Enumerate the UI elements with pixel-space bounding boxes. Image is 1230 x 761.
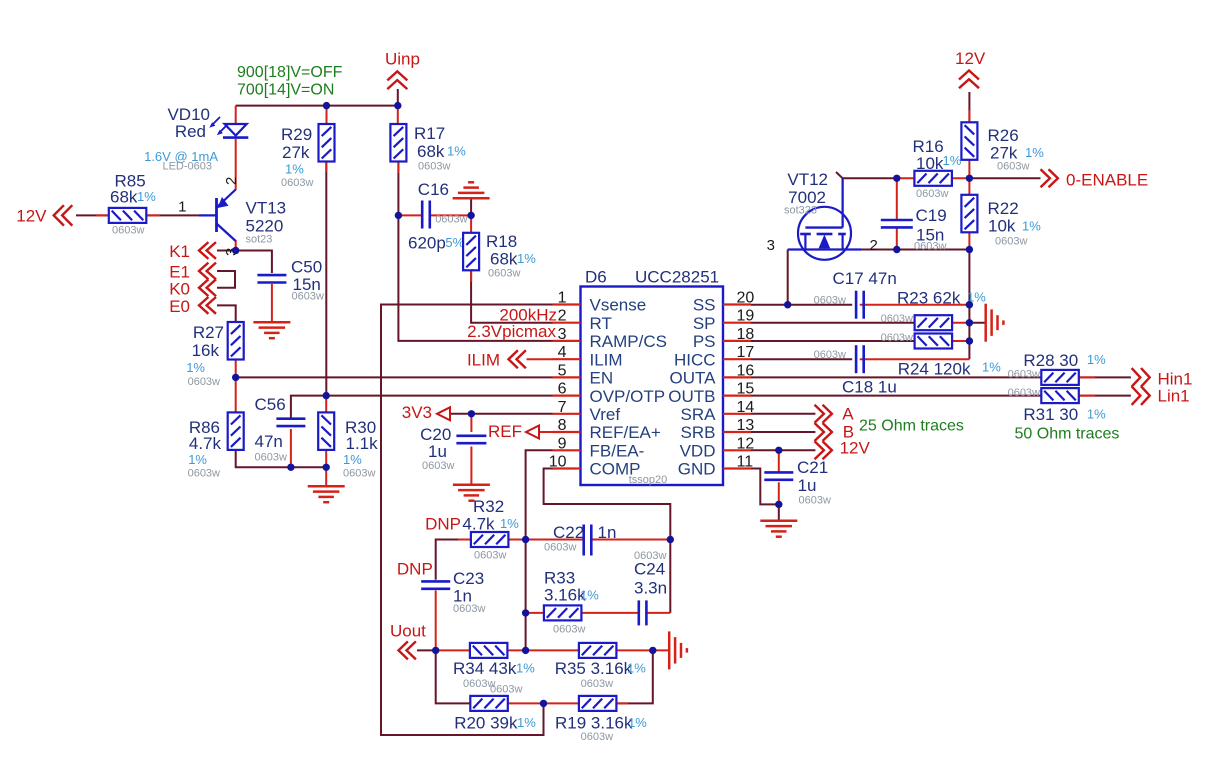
svg-text:sot23: sot23 (246, 234, 273, 246)
svg-text:620p: 620p (408, 234, 446, 253)
svg-text:A: A (842, 405, 854, 424)
svg-text:VDD: VDD (680, 442, 716, 461)
junction SS VT12 drain (784, 301, 791, 308)
junction enable node (966, 175, 973, 182)
wire R18 bottom to RT pin 2 (471, 269, 552, 322)
junction Vref C20 (468, 410, 475, 417)
svg-text:1%: 1% (447, 144, 466, 159)
svg-text:1%: 1% (500, 516, 519, 531)
svg-text:1%: 1% (188, 452, 207, 467)
svg-text:12V: 12V (840, 439, 871, 458)
svg-text:0603w: 0603w (1008, 369, 1040, 381)
svg-text:R17: R17 (414, 124, 445, 143)
svg-text:10: 10 (549, 454, 567, 471)
wire COMP node down to C24 (669, 540, 671, 613)
svg-text:0603w: 0603w (997, 161, 1029, 173)
svg-text:4.7k: 4.7k (189, 434, 222, 453)
junction OVP node R30 (323, 392, 330, 399)
wire R20 right stub (508, 702, 544, 704)
svg-text:1u: 1u (428, 442, 447, 461)
wire COMP pin 10 routing (544, 469, 671, 540)
capacitor C17 (814, 291, 864, 319)
wire HICC pin 17 to C18 (751, 358, 852, 360)
svg-text:R28 30: R28 30 (1023, 351, 1078, 370)
svg-text:1%: 1% (628, 715, 647, 730)
wire R30 bottom stub (325, 450, 327, 467)
svg-text:1%: 1% (580, 588, 599, 603)
svg-text:sot323: sot323 (784, 205, 817, 217)
capacitor C23 DNP (397, 560, 486, 616)
svg-text:R34 43k: R34 43k (453, 659, 517, 678)
wire R22 bottom stub (968, 232, 970, 249)
wire C23 bottom to Uout node (435, 591, 437, 651)
wire port E0 to R27 (217, 305, 236, 322)
svg-text:0603w: 0603w (581, 731, 613, 743)
svg-text:11: 11 (737, 454, 754, 471)
svg-text:C50: C50 (291, 258, 322, 277)
svg-text:R29: R29 (281, 125, 312, 144)
wire VT13 emitter to node K1 (235, 240, 237, 251)
junction R23 ground bus (966, 319, 973, 326)
wire REF pin 8 stub (539, 431, 553, 433)
svg-text:3.3n: 3.3n (634, 579, 667, 598)
wire VT13 base lead (199, 214, 217, 216)
svg-text:ILIM: ILIM (467, 351, 500, 370)
svg-text:1%: 1% (1025, 145, 1044, 160)
wire Vsense pin 1 to R19/R20 node (381, 305, 553, 736)
svg-text:R20 39k: R20 39k (454, 714, 518, 733)
svg-text:13: 13 (737, 417, 755, 434)
wire port K1 (217, 250, 236, 252)
comment 700V ON (237, 82, 334, 99)
junction EN node (232, 374, 239, 381)
wire OUTB pin 15 to R31 (751, 395, 1041, 397)
wire Vref pin 7 line (450, 413, 553, 415)
wire ground stem under R30 (325, 467, 327, 486)
junction R22 bottom (966, 246, 973, 253)
wire SRB pin 13 to port B (751, 431, 815, 433)
svg-text:18: 18 (737, 326, 755, 343)
svg-text:0603w: 0603w (916, 188, 948, 200)
svg-text:REF/EA+: REF/EA+ (590, 423, 661, 442)
junction GND C21 (775, 501, 782, 508)
wire VT12 gate to R16 (836, 172, 897, 227)
svg-text:50 Ohm traces: 50 Ohm traces (1015, 426, 1120, 443)
svg-text:0603w: 0603w (343, 468, 375, 480)
svg-text:4.7k: 4.7k (462, 515, 495, 534)
resistor R29 (281, 124, 335, 189)
svg-text:0603w: 0603w (914, 241, 946, 253)
resistor R35 (555, 643, 647, 690)
wire R28 to Hin1 (1078, 376, 1131, 378)
resistor R27 (186, 322, 243, 388)
svg-text:0603w: 0603w (814, 295, 846, 307)
svg-text:OVP/OTP: OVP/OTP (590, 387, 666, 406)
wire C56 bottom stub (290, 429, 292, 467)
svg-text:R32: R32 (473, 497, 504, 516)
ground under C21 (760, 521, 797, 537)
svg-text:2: 2 (223, 177, 240, 185)
svg-text:2.3Vpicmax: 2.3Vpicmax (467, 322, 556, 341)
svg-text:0603w: 0603w (422, 460, 454, 472)
svg-text:R35 3.16k: R35 3.16k (555, 659, 633, 678)
label pin 1 VT13 base (178, 199, 186, 216)
port 12V left (16, 205, 72, 225)
svg-text:DNP: DNP (425, 515, 461, 534)
svg-text:SP: SP (693, 314, 716, 333)
comment 50 Ohm traces (1015, 426, 1120, 443)
wire R19 right up to R35 node (615, 650, 653, 703)
resistor R30 (318, 412, 378, 479)
port E1 (169, 263, 216, 282)
svg-text:0603w: 0603w (453, 603, 485, 615)
port Lin1 (1132, 386, 1190, 405)
capacitor C20 (420, 425, 486, 472)
wire C16 left stub (398, 214, 421, 216)
svg-text:Uout: Uout (390, 622, 426, 641)
wire R16 right stub (952, 177, 970, 179)
svg-text:R22: R22 (988, 199, 1019, 218)
svg-text:PS: PS (693, 332, 716, 351)
svg-text:ILIM: ILIM (590, 350, 623, 369)
wire R33 left stub (526, 612, 544, 614)
svg-text:1%: 1% (982, 360, 1001, 375)
capacitor C22 (544, 523, 616, 556)
svg-text:C19: C19 (916, 206, 947, 225)
junction C16 left node (395, 212, 402, 219)
svg-text:VT13: VT13 (246, 199, 287, 218)
svg-text:1: 1 (558, 290, 567, 307)
port Uout (390, 622, 426, 660)
wire Uout port line (417, 649, 436, 651)
svg-text:12: 12 (737, 435, 755, 452)
wire R17 bottom to C16 node (397, 161, 399, 216)
svg-text:SRA: SRA (681, 405, 717, 424)
svg-text:12V: 12V (16, 207, 47, 226)
svg-text:0603w: 0603w (435, 214, 467, 226)
capacitor C16 (408, 180, 468, 253)
capacitor C21 (764, 458, 831, 507)
LED VD10 (144, 105, 248, 173)
wire C19 top stub (896, 178, 898, 219)
label R24 value (898, 360, 1002, 379)
svg-text:0603w: 0603w (188, 376, 220, 388)
junction C17 ground bus (966, 301, 973, 308)
capacitor C24 (634, 550, 667, 625)
resistor R24 (881, 332, 953, 349)
svg-text:20: 20 (737, 290, 755, 307)
wire ground stem under C21 (778, 504, 780, 520)
junction R24 ground bus (966, 337, 973, 344)
wire C19 bottom stub (896, 229, 898, 250)
wire C20 top stub (470, 414, 472, 432)
wire R86 top stub (235, 377, 237, 412)
wire OUTA pin 16 to R28 (751, 376, 1041, 378)
wire R19 left stub (544, 702, 579, 704)
svg-text:0603w: 0603w (799, 495, 831, 507)
resistor R33 (544, 569, 599, 636)
svg-text:0603w: 0603w (544, 542, 576, 554)
junction C19 bottom (893, 246, 900, 253)
resistor R86 (188, 412, 244, 479)
wire R29 bottom to OVP junction (325, 161, 327, 395)
junction Uinp rail R17 (394, 102, 401, 109)
transistor VT13 (217, 177, 287, 256)
svg-text:0603w: 0603w (581, 678, 613, 690)
svg-text:1%: 1% (517, 251, 536, 266)
wire R22 top stub (968, 178, 970, 195)
port E0 (169, 297, 216, 316)
svg-text:5: 5 (558, 362, 567, 379)
wire Uout node down to R20 (436, 650, 471, 703)
svg-text:1%: 1% (516, 661, 535, 676)
svg-text:0603w: 0603w (418, 161, 450, 173)
svg-text:3: 3 (767, 237, 775, 254)
wire C20 bottom to ground (470, 447, 472, 485)
svg-text:1%: 1% (1087, 407, 1106, 422)
port K1 (169, 242, 216, 261)
junction C16 right node (467, 212, 474, 219)
wire C17 right to ground bus (860, 304, 970, 306)
resistor R17 (390, 124, 466, 173)
svg-text:2: 2 (558, 308, 567, 325)
label 2.3Vpicmax (467, 322, 556, 341)
svg-text:EN: EN (590, 369, 614, 388)
svg-text:R27: R27 (193, 323, 224, 342)
port K0 (169, 279, 216, 298)
svg-text:C22: C22 (553, 523, 584, 542)
wire PS pin 18 to R24 (751, 340, 915, 342)
svg-text:SRB: SRB (681, 423, 716, 442)
svg-text:700[14]V=ON: 700[14]V=ON (237, 82, 334, 99)
svg-text:FB/EA-: FB/EA- (590, 442, 645, 461)
wire R18 top stub (470, 215, 472, 233)
wire R26 bottom stub (968, 161, 970, 179)
port 0-ENABLE (1041, 169, 1149, 189)
port Hin1 (1132, 368, 1193, 388)
wire VT12 source rail (862, 249, 970, 251)
svg-text:R19 3.16k: R19 3.16k (555, 714, 633, 733)
svg-text:K0: K0 (169, 280, 190, 299)
svg-text:0603w: 0603w (255, 452, 287, 464)
wire ground right stub (969, 322, 985, 324)
wire VT12 drain down to SS (787, 250, 789, 305)
port 12V right (815, 439, 871, 460)
junction FB divider mid (522, 647, 529, 654)
svg-text:0603w: 0603w (488, 268, 520, 280)
wire R32 right stub (508, 539, 525, 541)
wire inverted ground stem (470, 198, 472, 215)
svg-text:0-ENABLE: 0-ENABLE (1066, 171, 1148, 190)
port ILIM (467, 350, 553, 369)
wire SP pin 19 to R23 (751, 322, 915, 324)
capacitor C19 (881, 206, 947, 253)
junction R35 ground node (649, 647, 656, 654)
label C17 value (833, 269, 897, 288)
svg-text:0603w: 0603w (634, 550, 666, 562)
junction Uout node (432, 647, 439, 654)
wire EN pin 5 line (236, 376, 553, 378)
svg-text:900[18]V=OFF: 900[18]V=OFF (237, 64, 343, 81)
svg-text:C23: C23 (453, 569, 484, 588)
svg-text:1%: 1% (186, 360, 205, 375)
label R23 value (897, 289, 986, 308)
svg-text:27k: 27k (282, 143, 310, 162)
wire Uout node to R34 (436, 649, 470, 651)
wire node K1 to C50 (236, 251, 272, 274)
svg-text:25 Ohm traces: 25 Ohm traces (859, 418, 964, 435)
wire VDD pin 12 to port 12V (751, 449, 815, 451)
svg-text:0603w: 0603w (1008, 387, 1040, 399)
resistor R85 (109, 172, 156, 237)
wire LED to VT13 collector (235, 139, 237, 190)
svg-text:UCC28251: UCC28251 (635, 268, 719, 287)
svg-text:10k: 10k (916, 154, 944, 173)
svg-text:REF: REF (488, 422, 522, 441)
capacitor C18 (814, 345, 864, 373)
wire C50 to ground (271, 284, 273, 322)
svg-text:3V3: 3V3 (402, 403, 432, 422)
svg-text:0603w: 0603w (553, 624, 585, 636)
port REF (488, 422, 539, 441)
wire SRA pin 14 to port A (751, 413, 815, 415)
svg-text:3: 3 (558, 326, 567, 343)
svg-text:8: 8 (558, 417, 567, 434)
svg-text:1%: 1% (1087, 352, 1106, 367)
svg-text:1n: 1n (598, 523, 617, 542)
label 200kHz (499, 306, 557, 325)
svg-text:16: 16 (737, 362, 755, 379)
wire C22 right stub (592, 539, 671, 541)
port B (815, 423, 855, 442)
ground under C50 (253, 322, 290, 338)
junction FB R33 (522, 609, 529, 616)
svg-text:D6: D6 (585, 268, 607, 287)
svg-text:1%: 1% (343, 452, 362, 467)
label C18 value (842, 378, 897, 397)
svg-text:C16: C16 (418, 180, 449, 199)
junction gate node R16 (893, 175, 900, 182)
wire SS pin 20 to C17 (751, 304, 852, 306)
svg-text:K1: K1 (169, 242, 190, 261)
svg-text:0603w: 0603w (814, 349, 846, 361)
svg-text:C18 1u: C18 1u (842, 378, 897, 397)
wire C22 left stub (526, 539, 584, 541)
svg-text:C21: C21 (797, 458, 828, 477)
svg-text:VT12: VT12 (787, 170, 828, 189)
svg-text:1%: 1% (517, 715, 536, 730)
resistor R26 (961, 122, 1044, 172)
svg-text:1%: 1% (137, 189, 156, 204)
resistor R22 (961, 195, 1041, 248)
wire 12V top to R26 (968, 92, 970, 122)
capacitor C50 (257, 258, 324, 303)
svg-text:68k: 68k (490, 250, 518, 269)
wire top rail Uinp net (236, 89, 398, 124)
svg-text:6: 6 (558, 381, 567, 398)
svg-text:RT: RT (590, 314, 612, 333)
wire C16 right stub (430, 214, 471, 216)
wire GND pin 11 routing (751, 469, 779, 505)
svg-text:R31 30: R31 30 (1023, 405, 1078, 424)
wire R30 top stub (325, 396, 327, 414)
svg-text:C56: C56 (255, 395, 286, 414)
svg-text:1%: 1% (1022, 219, 1041, 234)
svg-text:14: 14 (737, 399, 755, 416)
comment 25 Ohm traces (859, 418, 964, 435)
transistor VT12 (767, 170, 878, 260)
svg-text:0603w: 0603w (995, 236, 1027, 248)
svg-text:7: 7 (558, 399, 567, 416)
rotated ground right of R23 (986, 304, 1004, 342)
port A (815, 405, 855, 424)
wire R23 right stub (952, 322, 970, 324)
resistor R16 (913, 137, 962, 200)
svg-text:1%: 1% (285, 162, 304, 177)
resistor R34 (453, 643, 535, 690)
resistor R20 (454, 684, 536, 733)
svg-text:12V: 12V (955, 49, 986, 68)
svg-text:GND: GND (678, 460, 716, 479)
svg-text:HICC: HICC (674, 350, 716, 369)
comment 900V OFF (237, 64, 343, 81)
svg-text:OUTA: OUTA (670, 369, 717, 388)
svg-text:1: 1 (178, 199, 186, 216)
junction R30 ground rail (323, 464, 330, 471)
svg-text:1%: 1% (943, 153, 962, 168)
junction VDD C21 (775, 447, 782, 454)
wire ports E1-K0 bracket (217, 271, 235, 288)
wire OVP pin 6 line (291, 396, 553, 418)
svg-text:10k: 10k (988, 217, 1016, 236)
port 12V top (955, 49, 986, 88)
svg-text:0603w: 0603w (881, 332, 913, 344)
wire 12V to R85 to VT13 base (76, 214, 199, 216)
svg-text:5%: 5% (445, 235, 464, 250)
wire R16 left stub (897, 177, 915, 179)
svg-text:SS: SS (693, 296, 716, 315)
svg-text:0603w: 0603w (188, 468, 220, 480)
wire FB pin 9 to feedback node (526, 450, 553, 650)
svg-text:15: 15 (737, 381, 755, 398)
wire R17 top stub (397, 106, 399, 124)
svg-text:4: 4 (558, 344, 567, 361)
wire R35 left stub (526, 649, 579, 651)
wire C21 top stub (778, 450, 780, 472)
svg-text:1u: 1u (798, 476, 817, 495)
svg-text:1.1k: 1.1k (346, 434, 379, 453)
resistor R23 (881, 313, 953, 330)
svg-text:E0: E0 (169, 297, 190, 316)
wire R34 right stub (507, 649, 525, 651)
wire C18 right to ground bus (860, 358, 970, 360)
svg-text:68k: 68k (417, 142, 445, 161)
wire R29 top stub (326, 106, 328, 124)
ground under C20 (453, 485, 490, 501)
wire R32 left to C23 (436, 540, 471, 580)
resistor R31 (1008, 387, 1107, 424)
svg-text:COMP: COMP (590, 460, 641, 479)
svg-text:19: 19 (737, 308, 755, 325)
wire R24 right stub (952, 340, 970, 342)
svg-text:R18: R18 (486, 232, 517, 251)
svg-text:0603w: 0603w (490, 684, 522, 696)
svg-text:Vsense: Vsense (590, 296, 647, 315)
junction node K1 (232, 247, 239, 254)
capacitor C56 (255, 395, 306, 464)
wire node E to 0-ENABLE port (969, 177, 1040, 179)
wire C24 right stub (647, 612, 671, 614)
